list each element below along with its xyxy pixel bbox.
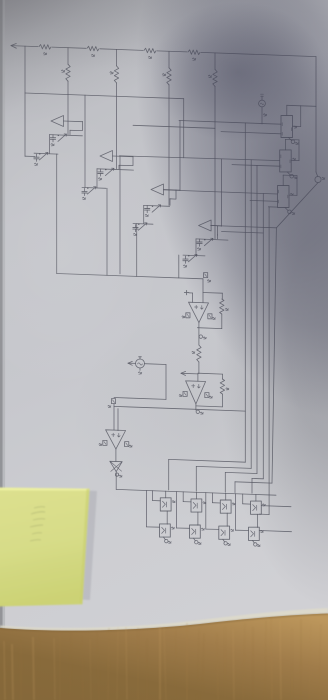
wire SW7 left pin — [205, 493, 207, 529]
node U2 minus label — [183, 391, 187, 396]
node FF1 Q bubble — [289, 138, 292, 141]
node SW1 label — [172, 501, 175, 502]
analog switch SW8 body — [249, 527, 260, 540]
wire bus-end drop — [183, 99, 185, 158]
node vdd plus flag — [184, 290, 188, 294]
node SW8 label — [261, 530, 264, 531]
resistor R6 (shunt) — [116, 49, 118, 66]
node SW7 out bubble — [223, 539, 225, 542]
capacitor C4b — [199, 239, 201, 242]
capacitor C1a feedback loop — [70, 121, 82, 130]
wire bus line 3 — [256, 165, 258, 473]
wire SW1 left pin — [152, 491, 154, 501]
resistor R2 (series) — [87, 46, 99, 51]
switch S2a — [105, 168, 113, 175]
wire stage1 row2 — [34, 152, 58, 155]
wire U2 output — [195, 404, 197, 410]
wire SW2 top stub — [195, 492, 197, 499]
wire FF3 inputs — [268, 206, 277, 208]
wire SW5 left pin — [146, 491, 148, 527]
wire U3 to buffer — [115, 449, 117, 461]
resistor R10 (series) — [197, 345, 201, 362]
wire bus line 4 — [262, 194, 264, 479]
capacitor C2a feedback loop — [119, 156, 133, 165]
wire stage3 output — [164, 189, 181, 192]
switch S3a — [152, 205, 160, 212]
wire stage3 row1 — [144, 204, 170, 207]
wire U2 in — [197, 374, 199, 381]
wire SW6 left pin — [176, 492, 178, 528]
wire low bus — [57, 274, 203, 279]
wire stage2 output — [113, 155, 134, 158]
op-amp U3 — [106, 430, 126, 449]
wire SW8 right loop — [259, 513, 269, 515]
wire row F extra — [222, 232, 264, 234]
wire right bus drop — [315, 57, 317, 172]
capacitor C2b — [100, 169, 102, 172]
node SW6 label — [202, 528, 205, 529]
wire stage4 interrow — [195, 239, 197, 256]
wire stage3 row2 — [133, 223, 153, 226]
wire step L2 — [196, 466, 251, 468]
wire second bus — [25, 93, 184, 99]
node U1 out label — [199, 335, 202, 338]
node SW5 out bubble — [164, 537, 166, 540]
node U2 input arrow — [181, 371, 186, 375]
resistor R3 (series) — [144, 48, 156, 53]
wire bus line 5 — [268, 207, 270, 514]
capacitor C1c — [36, 154, 38, 157]
wire node row FF3b — [250, 200, 278, 201]
analog switch SW4 body — [251, 501, 262, 514]
node SW2 label — [203, 502, 206, 503]
wire node row FF1b — [221, 132, 281, 134]
wire SW3 left pin — [212, 493, 214, 503]
wire FF3 loop — [289, 194, 297, 196]
wire node row FF1a — [179, 121, 281, 125]
wire SW4 right out — [261, 506, 291, 507]
source CLK (clock) — [259, 100, 266, 107]
wire node to opampA — [202, 279, 204, 303]
node FF2 Q bubble — [287, 172, 290, 175]
resistor R1 (series) — [39, 45, 51, 50]
desk wood — [0, 608, 328, 631]
wire step L3 — [225, 472, 257, 473]
analog switch SW7 body — [219, 526, 230, 539]
wire SW2 to SW6 — [197, 512, 199, 525]
node U2 out label — [196, 410, 199, 413]
switch S4a — [204, 238, 212, 245]
wire node row FF2b — [232, 165, 280, 167]
wire bus tail — [196, 409, 245, 411]
op-amp A4 (stage 4 amplifier) — [199, 220, 212, 231]
wire node row FF2a (S2 out to FF2) — [120, 156, 280, 161]
wire drop stage2 to low bus — [106, 188, 108, 275]
wire nested row y127 — [133, 125, 215, 128]
node SW4 label — [263, 504, 266, 505]
node U4 out label — [115, 473, 118, 476]
analog switch SW5 body — [160, 524, 171, 537]
op-amp U2 — [186, 381, 206, 404]
node SW3 label — [232, 503, 235, 504]
wire stage1 row1 — [50, 135, 83, 136]
flip-flop FF2 body — [280, 150, 292, 172]
resistor R9 (U1 feedback) — [203, 292, 222, 295]
node U1 plus label — [208, 314, 212, 319]
wire step L6 — [235, 482, 272, 483]
switch S4b — [188, 255, 196, 262]
wire SW4 to SW8 — [256, 514, 258, 527]
capacitor C2c — [84, 188, 86, 191]
wire tap S2 row2 — [84, 95, 86, 187]
resistor R8 (shunt) — [214, 53, 216, 70]
wire bus line 2 — [250, 160, 252, 469]
node SW8 out bubble — [253, 540, 255, 543]
wire stage4 row1 — [196, 239, 228, 240]
wire stage3 interrow — [143, 205, 145, 223]
wire phi drop diagonal — [272, 183, 318, 484]
resistor R5 (shunt) — [67, 48, 69, 64]
wire SW1 top stub — [165, 491, 167, 498]
capacitor C3b — [146, 206, 148, 209]
wire FF2 loop — [291, 159, 299, 161]
node phi2 terminal — [315, 176, 321, 182]
switch S3b — [138, 223, 146, 230]
switch S2b — [87, 187, 95, 194]
wire SW4 left pin — [242, 494, 244, 504]
wire U1 output — [198, 323, 200, 345]
wire clock bus — [116, 489, 276, 495]
wire stage4 row2 — [183, 254, 205, 257]
node U3 plus label — [125, 442, 129, 447]
wire SW8 out right — [259, 531, 291, 532]
node SW7 label — [231, 529, 234, 530]
wire SW3 to SW7 — [226, 513, 228, 526]
wire top bus — [11, 46, 38, 47]
capacitor C3c — [135, 225, 137, 228]
analog switch SW2 body — [191, 499, 202, 512]
wire SW2 left pin — [182, 492, 184, 502]
wire node to U3 — [113, 404, 115, 430]
node U3 minus label — [103, 440, 107, 445]
capacitor C1b — [52, 135, 54, 138]
wire S4out to bus6 — [211, 226, 277, 228]
node SW6 out bubble — [194, 538, 196, 541]
analog switch SW3 body — [220, 500, 231, 513]
node summing label — [204, 273, 208, 278]
wire source loop — [145, 363, 167, 366]
analog switch SW1 body — [160, 498, 171, 511]
switch S1a — [58, 134, 66, 141]
buffer U4 — [110, 461, 122, 471]
op-amp A1 (stage 1 amplifier) — [51, 116, 64, 127]
op-amp A2 (stage 2 amplifier) — [100, 151, 113, 162]
wire bus line 1 — [244, 123, 246, 462]
wire S3 out to FF3 row — [164, 190, 278, 194]
wire drop stage1 to low bus — [56, 154, 58, 274]
wire SW1 to SW5 — [166, 511, 168, 524]
wire step L1 — [169, 459, 246, 462]
capacitor C3a feedback loop — [170, 190, 176, 199]
wire stage1 output — [64, 120, 83, 123]
flip-flop FF3 body — [278, 186, 290, 208]
resistor R7 (shunt) — [168, 51, 170, 68]
node Vx label — [111, 399, 115, 404]
flip-flop FF1 body — [281, 116, 293, 138]
resistor R11 (U2 feedback) — [198, 372, 223, 375]
op-amp A3 (stage 3 amplifier) — [151, 184, 164, 195]
wire stage1 interrow — [49, 135, 51, 154]
op-amp U1 — [189, 302, 209, 322]
wire step L4 — [252, 477, 263, 479]
node SW5 label — [172, 527, 175, 528]
capacitor C4c — [185, 256, 187, 259]
wire U2out to node — [114, 406, 196, 409]
wire stage2 row2 — [82, 186, 106, 189]
wire SW4 top stub — [255, 494, 257, 501]
wire drop S2out to low bus — [119, 156, 121, 274]
node input arrow (left end of top bus) — [11, 44, 16, 49]
wire drop stage4 to low bus — [178, 255, 180, 278]
node U1 minus label — [186, 313, 190, 318]
capacitor C4a feedback loop — [217, 226, 219, 235]
wire left rail — [24, 46, 26, 156]
node source arrow — [128, 361, 132, 365]
wire R10 to U2 — [198, 362, 200, 374]
yellow sticky note — [0, 488, 97, 607]
switch S1b — [39, 153, 47, 160]
wire stage2 interrow — [96, 169, 98, 188]
wire SW3 top stub — [225, 493, 227, 500]
resistor R4 (series) — [188, 50, 200, 55]
wire fb to U3 — [117, 409, 119, 431]
node FF3 Q bubble — [285, 208, 288, 211]
node U2 plus label — [205, 393, 209, 398]
analog switch SW6 body — [190, 525, 201, 538]
wire stage4 output — [211, 225, 221, 227]
wire SW8 left pin — [235, 494, 237, 531]
wire buffer to clock bus — [115, 472, 117, 490]
source V1 (signal source) — [136, 359, 145, 368]
wire drop stage3 to low bus — [136, 224, 138, 277]
wire FF1 loop — [293, 125, 301, 127]
wire stage2 row1 — [97, 169, 134, 170]
